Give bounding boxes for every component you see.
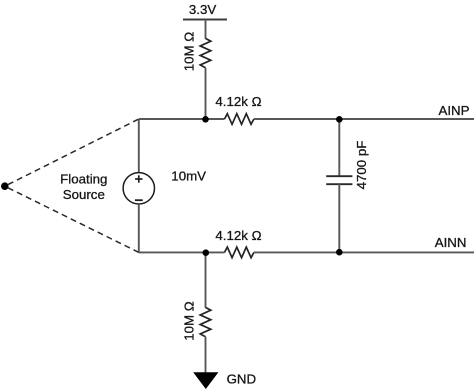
wire R4 to ground: [205, 337, 207, 373]
junction node capacitor bottom: [336, 249, 343, 256]
wire top line right segment to AINP: [254, 118, 474, 120]
wire top line left segment: [139, 118, 225, 120]
label 4700 pF: [354, 141, 369, 190]
label 4.12k Ω bottom: [215, 228, 261, 243]
svg-text:10M Ω: 10M Ω: [181, 32, 196, 72]
junction node bottom at R4/AINN: [203, 249, 210, 256]
svg-text:10mV: 10mV: [171, 168, 206, 183]
voltage source V1: [123, 173, 154, 204]
resistor R4 10M bottom vertical: [200, 307, 211, 336]
svg-text:AINP: AINP: [438, 103, 469, 118]
svg-text:Floating: Floating: [60, 171, 107, 186]
resistor R3 4.12k bottom horizontal: [225, 247, 254, 258]
svg-text:4.12k Ω: 4.12k Ω: [215, 228, 261, 243]
net AINP: [438, 103, 469, 118]
capacitor C1 4700pF: [326, 176, 352, 184]
wire cap bottom: [338, 184, 340, 252]
resistor R1 10M top vertical: [200, 38, 211, 67]
junction node capacitor top: [336, 116, 343, 123]
label 4.12k Ω top: [215, 94, 261, 109]
net AINN: [435, 235, 467, 250]
wire R1 to node AINP: [205, 68, 207, 119]
svg-text:AINN: AINN: [435, 235, 467, 250]
wire node to R4: [205, 252, 207, 307]
label 10M Ω bottom: [181, 301, 196, 341]
label 10mV: [171, 168, 206, 183]
svg-text:10M Ω: 10M Ω: [181, 301, 196, 341]
power rail 3.3V bar: [183, 19, 227, 21]
wire cap top: [338, 119, 340, 176]
label Floating Source: [60, 171, 107, 202]
svg-text:4.12k Ω: 4.12k Ω: [215, 94, 261, 109]
wire bottom line left segment: [139, 251, 225, 253]
junction node top at R1/AINP: [202, 116, 209, 123]
svg-text:3.3V: 3.3V: [189, 2, 216, 17]
resistor R2 4.12k top horizontal: [225, 114, 254, 125]
floating source apex node: [1, 182, 9, 190]
wire 3.3V bar to R1: [205, 20, 207, 39]
svg-text:Source: Source: [63, 187, 105, 202]
label GND: [227, 372, 257, 387]
svg-text:GND: GND: [227, 372, 257, 387]
wire source bottom: [138, 204, 140, 252]
wire source top: [138, 119, 140, 173]
dashed line apex to bottom corner: [8, 188, 139, 253]
label 3.3V: [189, 2, 216, 17]
svg-text:4700 pF: 4700 pF: [354, 141, 369, 190]
ground: [193, 372, 218, 389]
label 10M Ω top: [181, 32, 196, 72]
wire bottom line right segment to AINN: [254, 251, 474, 253]
dashed line apex to top corner: [8, 119, 139, 185]
